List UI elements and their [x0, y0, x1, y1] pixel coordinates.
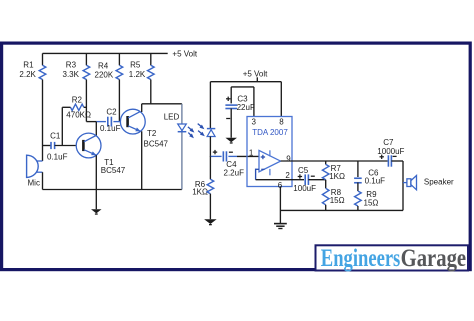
- pin 8 label: [279, 117, 284, 126]
- wire C5 to R7 node: [308, 179, 325, 181]
- capacitor C6: [354, 178, 362, 183]
- wire C1 to T1 base: [55, 145, 77, 147]
- wire C4 node to R6: [209, 156, 211, 179]
- svg-text:Speaker: Speaker: [424, 177, 454, 186]
- svg-text:LED: LED: [164, 112, 180, 121]
- C4 minus: [229, 151, 233, 153]
- wire R7-R8 node: [325, 180, 327, 189]
- resistor R9: [355, 191, 362, 206]
- wire T2 collector: [141, 104, 143, 112]
- op-amp U1 TDA2007 box: [247, 117, 292, 187]
- svg-text:TDA 2007: TDA 2007: [252, 128, 288, 137]
- pin 1 label: [249, 149, 254, 158]
- wire R6 to ground: [209, 194, 211, 220]
- wire R5 top: [150, 53, 152, 65]
- svg-text:22uF: 22uF: [237, 103, 255, 112]
- svg-text:C5: C5: [298, 166, 309, 175]
- svg-text:R3: R3: [66, 60, 77, 69]
- svg-text:2: 2: [285, 171, 290, 180]
- svg-text:0.1uF: 0.1uF: [47, 152, 68, 161]
- border frame: [2, 43, 471, 270]
- svg-text:8: 8: [279, 117, 284, 126]
- capacitor C4: [223, 151, 226, 161]
- wire R4 to T2 base node: [118, 80, 120, 122]
- svg-text:1000uF: 1000uF: [377, 147, 404, 156]
- +5V rail (left): [43, 52, 168, 54]
- resistor R8: [322, 188, 329, 205]
- op-amp plus input: [261, 155, 265, 159]
- wire C1 left: [43, 145, 52, 147]
- diode LED D1: [178, 124, 187, 132]
- svg-text:C7: C7: [383, 138, 394, 147]
- wire C4 to op-amp pin 1: [237, 155, 259, 157]
- wire R2 left to base: [61, 107, 63, 145]
- svg-text:15Ω: 15Ω: [364, 198, 379, 207]
- svg-text:R1: R1: [23, 61, 34, 70]
- svg-text:0.1uF: 0.1uF: [365, 176, 386, 185]
- C3 label: [237, 94, 255, 112]
- wire R9 bottom: [357, 206, 359, 210]
- R4 label: [95, 61, 114, 79]
- LED label: [164, 112, 180, 121]
- svg-text:470KΩ: 470KΩ: [66, 111, 91, 120]
- C5 plus: [298, 174, 302, 178]
- wire op-amp output pin 9: [281, 160, 388, 162]
- R7 label: [329, 164, 345, 181]
- T2 label: [144, 129, 169, 148]
- ground under R6: [204, 219, 217, 225]
- Speaker label: [424, 177, 454, 186]
- transistor T1: [76, 133, 101, 158]
- resistor R7: [322, 164, 329, 179]
- op-amp triangle: [259, 150, 281, 171]
- capacitor C2: [108, 117, 112, 127]
- R3 label: [63, 60, 80, 79]
- pin 6 label: [278, 181, 283, 190]
- Mic label: [28, 178, 40, 187]
- resistor R6: [207, 179, 214, 193]
- resistor R5: [148, 65, 155, 79]
- resistor R1: [39, 65, 46, 79]
- C7 minus: [393, 155, 397, 157]
- wire R2 right lead: [84, 106, 87, 108]
- C6 label: [365, 169, 386, 186]
- svg-text:9: 9: [286, 154, 291, 163]
- wire pin 6 down: [279, 187, 281, 224]
- svg-text:C1: C1: [50, 131, 61, 140]
- wire C6 to R9: [357, 183, 359, 192]
- op-amp minus input: [261, 168, 264, 170]
- wire R7 top stub: [325, 161, 327, 164]
- svg-text:R4: R4: [98, 61, 109, 70]
- svg-text:Mic: Mic: [28, 178, 40, 187]
- C7 label: [377, 138, 404, 156]
- wire T1 collector: [95, 122, 97, 136]
- transistor T2: [120, 109, 145, 134]
- EngineersGarage logo text: [321, 245, 466, 272]
- wire C6 top: [357, 161, 359, 177]
- wire speaker column: [402, 161, 404, 210]
- pin 3 label: [252, 117, 257, 126]
- wire mic bottom: [42, 172, 44, 189]
- wire C3 top rail: [231, 86, 254, 88]
- wire photodiode to C4 node: [209, 137, 211, 158]
- ground rail (left): [43, 189, 182, 191]
- svg-text:220K: 220K: [95, 70, 114, 79]
- capacitor C3: [225, 105, 237, 108]
- capacitor C7: [388, 155, 391, 166]
- capacitor C5: [305, 174, 308, 185]
- svg-text:R5: R5: [130, 60, 141, 69]
- svg-text:1: 1: [249, 149, 254, 158]
- C1 label: [47, 131, 68, 161]
- ground under T1: [91, 209, 102, 215]
- microphone Mic: [27, 155, 43, 177]
- svg-text:Engineers: Engineers: [321, 245, 401, 272]
- ground under C3: [225, 138, 237, 144]
- wire R2 node to C2: [86, 121, 106, 123]
- op-amp tick marks: [269, 150, 271, 175]
- svg-text:+5 Volt: +5 Volt: [172, 50, 197, 59]
- C4 label: [224, 160, 245, 177]
- wire T2 emitter: [141, 131, 143, 189]
- svg-text:BC547: BC547: [101, 166, 126, 175]
- resistor R2: [71, 104, 84, 110]
- svg-text:1KΩ: 1KΩ: [192, 188, 208, 197]
- wire R8 bottom: [325, 205, 327, 211]
- C5 label: [293, 166, 316, 193]
- EngineersGarage logo box: [316, 245, 469, 270]
- +5V rail (right): [210, 81, 281, 83]
- TDA 2007 label: [252, 128, 288, 137]
- wire R2 left lead: [62, 106, 70, 108]
- svg-text:100uF: 100uF: [293, 184, 316, 193]
- wire C3 to ground: [230, 109, 232, 138]
- wire C7 to speaker corner: [391, 160, 403, 162]
- wire LED column: [181, 104, 183, 190]
- C5 minus: [311, 175, 315, 177]
- svg-text:3: 3: [252, 117, 257, 126]
- svg-text:C2: C2: [106, 108, 117, 117]
- svg-text:0.1uF: 0.1uF: [100, 124, 121, 133]
- light arrows from LED: [188, 127, 195, 138]
- R1 label: [19, 61, 36, 80]
- wire C3 column top: [230, 87, 232, 104]
- wire R3 to R2/C2 node: [85, 80, 87, 122]
- wire pin 8 column: [280, 82, 282, 117]
- svg-text:1KΩ: 1KΩ: [329, 172, 345, 181]
- capacitor C1: [51, 142, 55, 149]
- svg-text:+5 Volt: +5 Volt: [243, 69, 268, 78]
- svg-text:T2: T2: [147, 129, 157, 138]
- earth ground under pin 6: [274, 224, 287, 229]
- photodiode D2: [207, 129, 215, 137]
- wire R1 to mic/C1 node: [42, 80, 44, 162]
- wire C4 right blue: [228, 155, 237, 157]
- svg-text:R2: R2: [72, 96, 83, 105]
- C3 minus: [226, 118, 230, 120]
- wire collector rail to LED: [142, 103, 182, 105]
- wire rail to photodiode: [209, 82, 211, 129]
- wire R1 top: [42, 53, 44, 65]
- T1 label: [101, 158, 126, 175]
- wire R3 top: [85, 53, 87, 65]
- svg-text:3.3K: 3.3K: [63, 70, 80, 79]
- pin 9 label: [286, 154, 291, 163]
- svg-text:Garage: Garage: [401, 245, 467, 272]
- +5 Volt label (right): [243, 69, 268, 78]
- svg-text:1.2K: 1.2K: [129, 70, 146, 79]
- pin 2 label: [285, 171, 290, 180]
- svg-text:2.2K: 2.2K: [19, 70, 36, 79]
- wire pin 3 column: [253, 87, 255, 117]
- R9 label: [364, 190, 379, 207]
- wire C2 to T2 base: [113, 121, 120, 123]
- wire R5 to collector rail: [150, 80, 152, 104]
- light arrows into photodiode: [198, 124, 205, 137]
- R8 label: [330, 188, 345, 205]
- ground rail (right): [280, 209, 403, 211]
- svg-text:2.2uF: 2.2uF: [224, 168, 245, 177]
- R2 label: [66, 96, 91, 120]
- speaker LS1: [403, 176, 417, 190]
- resistor R4: [116, 65, 123, 79]
- svg-text:BC547: BC547: [144, 139, 169, 148]
- +5 Volt label (left): [172, 50, 197, 59]
- C7 plus: [380, 155, 384, 159]
- wire C4 left: [210, 155, 221, 157]
- resistor R3: [83, 65, 90, 79]
- C3 plus: [226, 97, 230, 101]
- +5 Volt tick: [256, 77, 258, 81]
- svg-text:15Ω: 15Ω: [330, 196, 345, 205]
- wire feedback from minus input: [256, 169, 304, 180]
- R6 label: [192, 180, 208, 196]
- wire T1 emitter: [95, 155, 97, 209]
- wire R4 top: [118, 53, 120, 65]
- C2 label: [100, 108, 121, 134]
- R5 label: [129, 60, 146, 79]
- C4 plus: [213, 150, 217, 154]
